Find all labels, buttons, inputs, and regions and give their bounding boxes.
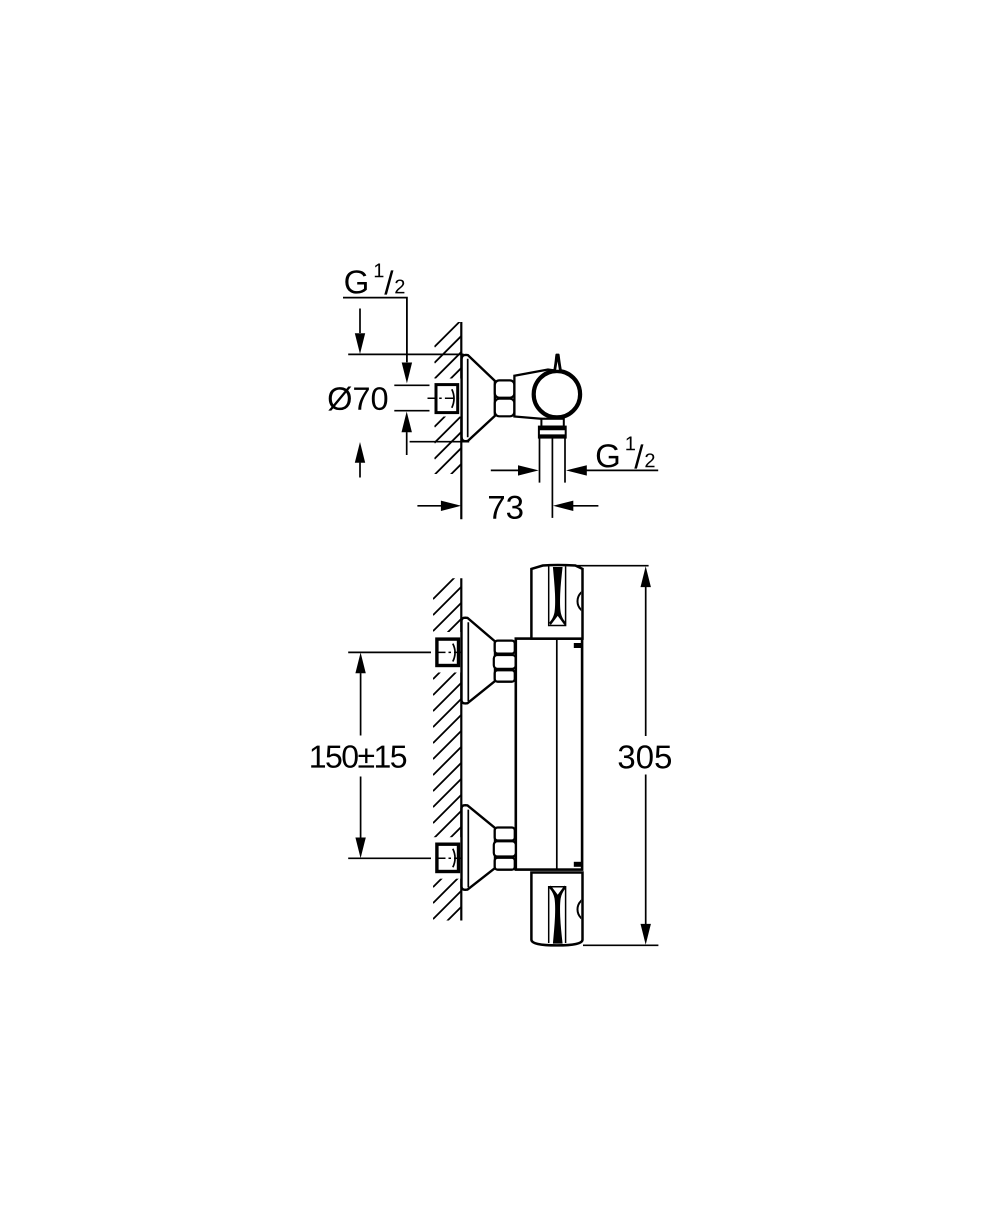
label G 1/2 (wall thread, side view) [345, 264, 404, 295]
cylinder arc inside upper square [453, 644, 455, 662]
dimension 150±15 upper arrow [355, 653, 365, 736]
lever white notch (side view) [556, 361, 559, 369]
outlet neck below knob (side view) [541, 419, 563, 427]
extension line Ø70 bottom [410, 441, 470, 443]
escutcheon cone (side view) [462, 355, 495, 441]
dimension 73 (wall to hose centre) [417, 496, 598, 519]
wall face line (side view) [460, 322, 462, 519]
valve body (side view) [514, 370, 558, 419]
wall hatching (front view) [433, 570, 462, 951]
centreline dash-dot through square (side view) [428, 397, 461, 399]
bottom handle side button arc [578, 897, 602, 921]
bottom handle metal lever blade [549, 886, 566, 944]
extension line 150±15 bottom [348, 857, 435, 859]
label Ø70 [328, 387, 387, 411]
extension line 150±15 top [348, 651, 436, 653]
wall union square nut (side view) [436, 385, 458, 413]
label 150±15 [311, 745, 406, 768]
shower hose centreline [551, 438, 553, 518]
upper supply square nut (front view) [437, 639, 459, 665]
lower escutcheon cone (front view) [462, 805, 496, 890]
union hex nut (side view) [495, 380, 515, 416]
dimension arrows G 1/2 (hose thread) [491, 465, 658, 475]
bottom handle grip slot [549, 887, 566, 943]
lower arrow of G 1/2 (pipe thread bottom) [402, 412, 412, 456]
shower hose outer walls (side view) [540, 438, 566, 483]
top handle metal lever blade [549, 567, 566, 625]
centreline dash-dot lower square [438, 857, 461, 859]
lower arrow of dimension Ø70 [355, 442, 365, 478]
white halo around lower supply square [431, 837, 461, 879]
upper arrow of dimension Ø70 [355, 309, 365, 355]
supply pipe stub in wall (side view) [394, 385, 435, 410]
white halo around wall union square (side view) [430, 379, 462, 417]
wall hatching (side view) [434, 319, 462, 507]
dimension line 305 with arrows [641, 566, 651, 944]
temperature handle (front view, top) [531, 565, 582, 639]
lower union hex nut (front view) [494, 828, 516, 870]
extension line Ø70 top [348, 353, 463, 355]
cylinder edge arc inside square (side view) [452, 389, 454, 408]
top handle side button arc [578, 589, 602, 613]
flow handle (front view, bottom) [531, 873, 582, 946]
label 305 [619, 745, 671, 768]
dimension 150±15 lower arrow [355, 777, 365, 859]
thermostat knob circle (side view) [534, 371, 580, 417]
extension line 305 bottom [583, 944, 658, 946]
centreline dash-dot upper square [438, 651, 461, 653]
top handle grip slot [549, 566, 566, 625]
upper escutcheon cone (front view) [462, 618, 496, 704]
cylinder arc inside lower square [453, 849, 455, 868]
mixer body (front view) [516, 639, 582, 870]
wall face line (front view) [460, 578, 462, 920]
knob lever (side view) [553, 354, 562, 371]
leader arrow of G 1/2 pointing to pipe thread top [402, 363, 412, 384]
hose coupling collar (side view) [539, 427, 566, 438]
extension line 305 top [576, 565, 649, 567]
white halo around upper supply square [431, 632, 461, 673]
leader line of G 1/2 (top) [343, 298, 407, 363]
escutcheon base edge line (side view) [467, 359, 469, 438]
clip notch bottom [574, 862, 581, 867]
body inner edge line [556, 640, 558, 869]
lower supply square nut (front view) [437, 844, 459, 871]
lower escutcheon base edge line [467, 810, 469, 888]
label G 1/2 (hose thread) [597, 437, 655, 469]
upper union hex nut (front view) [494, 641, 516, 682]
clip notch top [574, 643, 581, 648]
upper escutcheon base edge line [467, 622, 469, 701]
